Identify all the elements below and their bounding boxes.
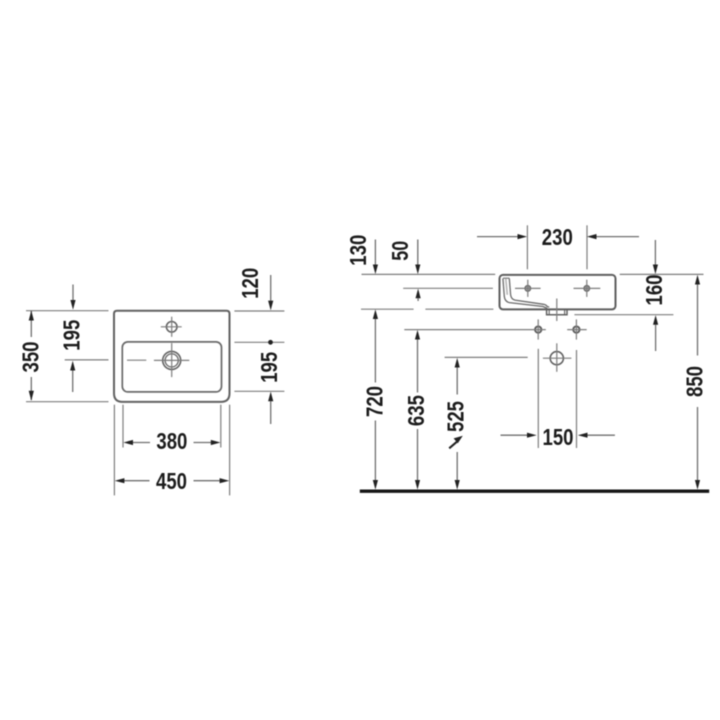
dimension 230 (side top) [477,224,639,269]
projection line rim level [362,273,704,275]
washbasin body (side) [500,275,616,310]
dimension 720 (side) [361,309,387,489]
drain outlet (plan) [127,343,189,377]
projection line fixing-hole level [403,287,493,289]
drain box centerline [556,299,558,322]
dimension 150 (side bottom) [501,349,615,450]
projection line drain-box bottom level [574,314,673,316]
svg-text:195: 195 [256,352,282,383]
svg-text:635: 635 [403,395,429,426]
svg-text:230: 230 [542,224,573,250]
reference dot (plan right, inner basin top) [234,340,284,345]
projection line siphon level [445,356,528,358]
dimension 525 (side) [442,358,468,490]
svg-text:130: 130 [345,235,371,266]
dimension 635 (side) [403,330,429,490]
svg-text:380: 380 [156,428,187,454]
dimension 160 (side right) [641,240,667,351]
dimension 195 (plan left inner) [59,285,109,393]
svg-text:150: 150 [543,424,574,450]
svg-text:350: 350 [18,342,44,373]
svg-text:50: 50 [387,241,413,261]
lower fixing hole right (side) [567,319,587,339]
upper fixing hole right (side) [574,280,601,297]
svg-text:120: 120 [237,268,263,299]
basin interior section profile (side) [503,278,549,308]
dimension 50 (side) [387,240,421,302]
lower fixing hole left (side) [535,319,541,339]
svg-text:720: 720 [361,386,387,417]
dimension 350 (plan left) [18,311,109,402]
svg-text:525: 525 [442,401,468,432]
dimension 120 (plan right top) [234,268,284,311]
svg-text:195: 195 [59,320,85,351]
projection line lower holes level [404,329,546,331]
svg-text:450: 450 [156,468,187,494]
drain box below basin (side) [547,310,567,315]
projection line body bottom level [361,308,493,310]
dimension 130 (side) [345,235,378,274]
washbasin inner basin rim (plan) [122,342,221,392]
dimension 380 (plan bottom) [123,405,221,455]
ground line [360,490,709,493]
dimension 850 (side right) [682,275,708,490]
leader arrow for 525 [449,442,457,449]
dimension 195 (plan right inner) [234,352,284,424]
dimension 450 (plan bottom) [114,405,229,496]
svg-text:850: 850 [682,366,708,397]
siphon drain circle (side) [543,343,572,372]
washbasin outer body (plan) [114,311,230,402]
svg-text:160: 160 [641,275,667,306]
upper fixing hole left (side) [515,280,541,297]
faucet hole (plan) [161,317,182,337]
